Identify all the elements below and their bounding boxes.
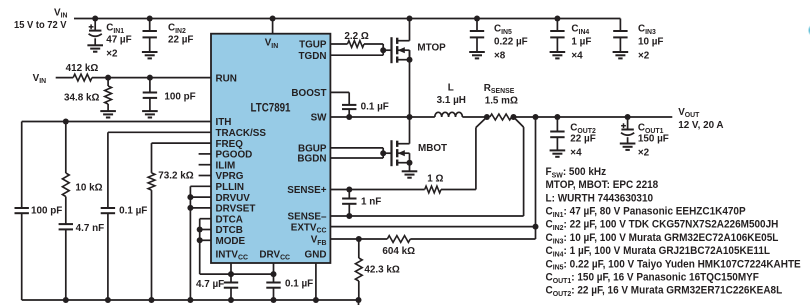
svg-text:GND: GND [305, 249, 327, 260]
svg-text:100 pF: 100 pF [31, 205, 62, 216]
svg-text:L: L [448, 82, 454, 93]
svg-text:SENSE+: SENSE+ [287, 185, 326, 196]
svg-text:BOOST: BOOST [291, 88, 327, 99]
svg-text:TGUP: TGUP [299, 40, 327, 51]
svg-text:COUT1​: 150 µF, 16 V Panasonic: COUT1​: 150 µF, 16 V Panasonic 16TQC150M… [546, 272, 759, 285]
svg-text:PGOOD: PGOOD [216, 149, 253, 160]
svg-text:1 nF: 1 nF [361, 196, 381, 207]
svg-text:CIN3​: 10 µF, 100 V Murata GRM: CIN3​: 10 µF, 100 V Murata GRM32EC72A106… [546, 233, 779, 246]
svg-text:DRVUV: DRVUV [216, 193, 251, 204]
svg-text:1.5 mΩ: 1.5 mΩ [485, 95, 518, 106]
svg-text:10 µF: 10 µF [638, 36, 663, 47]
svg-text:ITH: ITH [216, 117, 232, 128]
svg-text:0.22 µF: 0.22 µF [494, 36, 528, 47]
svg-text:4.7 nF: 4.7 nF [76, 223, 105, 234]
svg-text:604 kΩ: 604 kΩ [382, 246, 415, 257]
svg-text:MODE: MODE [216, 236, 246, 247]
svg-text:12 V, 20 A: 12 V, 20 A [678, 120, 724, 131]
svg-text:0.1 µF: 0.1 µF [285, 278, 313, 289]
svg-text:×4: ×4 [570, 147, 582, 158]
svg-text:42.3 kΩ: 42.3 kΩ [364, 264, 399, 275]
svg-text:34.8 kΩ: 34.8 kΩ [64, 92, 99, 103]
svg-text:3.1 µH: 3.1 µH [437, 95, 466, 106]
svg-text:100 pF: 100 pF [164, 91, 195, 102]
svg-text:47 µF: 47 µF [106, 34, 131, 45]
svg-text:L: WURTH 7443630310: L: WURTH 7443630310 [546, 193, 654, 204]
svg-text:1 µF: 1 µF [571, 36, 591, 47]
svg-text:TGDN: TGDN [299, 51, 327, 62]
svg-text:SW: SW [311, 113, 327, 124]
svg-text:×2: ×2 [106, 48, 118, 59]
svg-text:15 V to 72 V: 15 V to 72 V [14, 20, 67, 32]
svg-text:22 µF: 22 µF [168, 34, 193, 45]
svg-text:BGDN: BGDN [297, 154, 326, 165]
svg-text:COUT2​: 22 µF, 16 V Murata GRM: COUT2​: 22 µF, 16 V Murata GRM32ER71C226… [546, 285, 783, 298]
svg-text:SENSE–: SENSE– [288, 212, 327, 223]
svg-text:0.1 µF: 0.1 µF [119, 205, 147, 216]
svg-text:DTCB: DTCB [216, 225, 243, 236]
svg-text:TRACK/SS: TRACK/SS [216, 128, 267, 139]
svg-text:MBOT: MBOT [418, 143, 448, 154]
svg-text:MTOP, MBOT: EPC 2218: MTOP, MBOT: EPC 2218 [546, 180, 659, 191]
svg-text:LTC7891: LTC7891 [251, 102, 291, 115]
svg-text:CIN2​: 22 µF, 100 V TDK CKG57N: CIN2​: 22 µF, 100 V TDK CKG57NX7S2A226M5… [546, 219, 779, 232]
svg-text:73.2 kΩ: 73.2 kΩ [158, 170, 193, 181]
svg-text:PLLIN: PLLIN [216, 182, 245, 193]
svg-text:CIN5​: 0.22 µF, 100 V Taiyo Yu: CIN5​: 0.22 µF, 100 V Taiyo Yuden HMK107… [546, 259, 801, 272]
svg-text:×2: ×2 [638, 147, 650, 158]
svg-text:DTCA: DTCA [216, 214, 244, 225]
svg-text:VPRG: VPRG [216, 171, 244, 182]
svg-text:22 µF: 22 µF [570, 133, 595, 144]
svg-text:2.2 Ω: 2.2 Ω [344, 31, 368, 42]
svg-text:CIN1​: 47 µF, 80 V Panasonic E: CIN1​: 47 µF, 80 V Panasonic EEHZC1K470P [546, 206, 746, 219]
svg-text:CIN4​: 1 µF, 100 V Murata GRJ2: CIN4​: 1 µF, 100 V Murata GRJ21BC72A105K… [546, 246, 771, 259]
svg-text:ILIM: ILIM [216, 160, 236, 171]
svg-text:RUN: RUN [216, 73, 237, 84]
svg-text:FREQ: FREQ [216, 139, 244, 150]
svg-text:1 Ω: 1 Ω [427, 173, 443, 184]
svg-text:DRVSET: DRVSET [216, 203, 257, 214]
svg-text:10 kΩ: 10 kΩ [75, 182, 102, 193]
svg-text:MTOP: MTOP [417, 43, 446, 54]
svg-text:4.7 µF: 4.7 µF [196, 279, 224, 290]
svg-text:×4: ×4 [571, 50, 583, 61]
svg-text:×2: ×2 [638, 50, 650, 61]
svg-text:412 kΩ: 412 kΩ [66, 63, 99, 74]
svg-text:0.1 µF: 0.1 µF [361, 101, 389, 112]
svg-text:150 µF: 150 µF [638, 133, 669, 144]
svg-text:×8: ×8 [494, 50, 506, 61]
